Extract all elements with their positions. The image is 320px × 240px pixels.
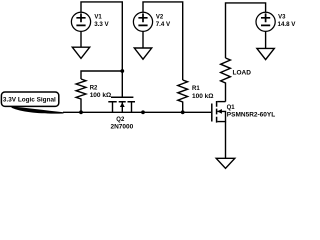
svg-text:7.4 V: 7.4 V — [156, 21, 171, 28]
svg-text:Q1: Q1 — [227, 105, 236, 111]
svg-text:2N7000: 2N7000 — [111, 124, 134, 131]
svg-text:V1: V1 — [94, 14, 102, 20]
svg-text:100 kΩ: 100 kΩ — [192, 93, 213, 100]
svg-text:V3: V3 — [278, 14, 286, 20]
svg-text:3.3V Logic Signal: 3.3V Logic Signal — [3, 97, 56, 104]
svg-text:Q2: Q2 — [116, 117, 125, 123]
svg-text:3.3 V: 3.3 V — [94, 21, 109, 28]
svg-text:V2: V2 — [156, 14, 164, 20]
svg-text:14.8 V: 14.8 V — [278, 21, 297, 28]
svg-text:R2: R2 — [90, 85, 98, 91]
svg-text:100 kΩ: 100 kΩ — [90, 92, 111, 99]
svg-text:R1: R1 — [192, 86, 200, 92]
svg-text:LOAD: LOAD — [233, 70, 252, 77]
svg-text:PSMN5R2-60YL: PSMN5R2-60YL — [227, 111, 275, 118]
